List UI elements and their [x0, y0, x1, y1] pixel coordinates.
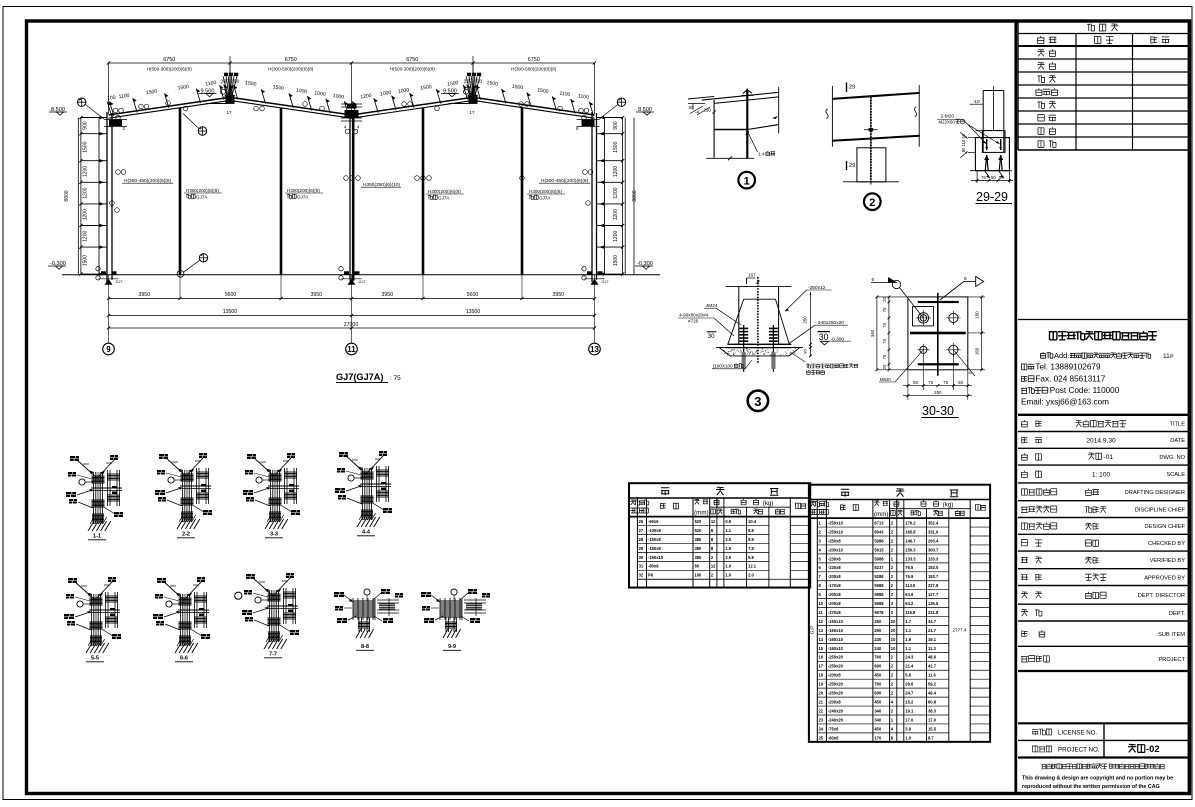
svg-text:-200x8: -200x8	[828, 574, 841, 579]
svg-text:SUB ITEM: SUB ITEM	[1158, 632, 1185, 638]
svg-text:-01: -01	[1104, 454, 1114, 461]
svg-text:3-3: 3-3	[270, 532, 278, 538]
svg-text:3950: 3950	[552, 292, 564, 298]
svg-text:1200: 1200	[83, 209, 89, 220]
svg-text:LICENSE NO.: LICENSE NO.	[1058, 730, 1097, 737]
svg-text:5978: 5978	[874, 610, 884, 615]
svg-text:13: 13	[590, 345, 599, 354]
svg-text:-75x6: -75x6	[828, 726, 839, 731]
svg-text:5-5: 5-5	[91, 656, 99, 662]
svg-text:#726: #726	[688, 319, 699, 324]
svg-text:5915: 5915	[874, 547, 884, 552]
svg-text:50: 50	[689, 105, 694, 110]
svg-text:H300(200)(6)(8): H300(200)(6)(8)	[287, 188, 320, 193]
svg-text:GJ7: GJ7	[602, 280, 609, 284]
svg-text:5600: 5600	[467, 292, 479, 298]
svg-text:DEPT.: DEPT.	[1169, 611, 1186, 617]
svg-text:5.8: 5.8	[748, 555, 754, 560]
svg-text:1500: 1500	[613, 255, 619, 266]
svg-text:: 75: : 75	[390, 375, 401, 382]
svg-text:20: 20	[891, 619, 896, 624]
svg-text:-250x10: -250x10	[828, 520, 844, 525]
svg-text:80: 80	[695, 564, 700, 569]
svg-text:GJ7A: GJ7A	[438, 195, 450, 200]
svg-text:11#: 11#	[1163, 353, 1174, 360]
svg-text:900: 900	[83, 121, 89, 130]
svg-text:GJ7: GJ7	[359, 280, 366, 284]
svg-text:Post Code: 110000: Post Code: 110000	[1050, 386, 1120, 395]
svg-text:23: 23	[819, 717, 824, 722]
svg-text:15: 15	[819, 646, 824, 651]
svg-text:75: 75	[928, 380, 933, 385]
svg-text:-170x8: -170x8	[828, 610, 841, 615]
svg-text:16: 16	[819, 655, 824, 660]
svg-text:-200x8: -200x8	[828, 699, 841, 704]
svg-text:-200x8: -200x8	[828, 592, 841, 597]
svg-text:-250x20: -250x20	[828, 682, 844, 687]
svg-text:H300(200)(6)(8): H300(200)(6)(8)	[186, 188, 219, 193]
svg-text:7.8: 7.8	[748, 546, 754, 551]
svg-text:14: 14	[819, 637, 824, 642]
svg-text:48.6: 48.6	[928, 655, 937, 660]
svg-text:M630: M630	[880, 377, 892, 382]
svg-text:-160x10: -160x10	[828, 619, 844, 624]
svg-text:Email: yxsj66@163.com: Email: yxsj66@163.com	[1021, 398, 1109, 407]
svg-text:10.4: 10.4	[748, 519, 757, 524]
svg-text:-60x6: -60x6	[648, 519, 659, 524]
svg-text:1.0: 1.0	[725, 573, 731, 578]
svg-text:146.7: 146.7	[905, 538, 916, 543]
svg-text:150: 150	[975, 347, 980, 355]
svg-text:34.7: 34.7	[928, 619, 937, 624]
svg-text:5237: 5237	[874, 565, 884, 570]
svg-text:3.9: 3.9	[905, 726, 911, 731]
svg-text:75: 75	[943, 380, 948, 385]
svg-text:GJ7: GJ7	[809, 625, 814, 634]
svg-text:24.3: 24.3	[905, 655, 914, 660]
svg-text:250: 250	[704, 108, 712, 113]
svg-text:27: 27	[639, 528, 644, 533]
svg-text:-250x10: -250x10	[828, 529, 844, 534]
svg-text:1:4: 1:4	[758, 152, 765, 158]
svg-text:1.0: 1.0	[725, 564, 731, 569]
svg-text:75: 75	[882, 338, 887, 343]
svg-text:2: 2	[869, 197, 875, 209]
svg-text:340: 340	[874, 717, 882, 722]
svg-text:31: 31	[639, 564, 644, 569]
svg-text:17.0: 17.0	[905, 717, 914, 722]
svg-text:5988: 5988	[874, 592, 884, 597]
svg-text:6750: 6750	[163, 57, 175, 63]
svg-text:15.5: 15.5	[928, 726, 937, 731]
svg-text:250: 250	[934, 390, 942, 395]
svg-text:2.0: 2.0	[748, 573, 754, 578]
svg-text:PROJECT: PROJECT	[1158, 657, 1185, 663]
svg-text:Tel. 13889102679: Tel. 13889102679	[1035, 363, 1101, 372]
svg-text:60.8: 60.8	[928, 699, 937, 704]
svg-text:DRAFTING DESIGNER: DRAFTING DESIGNER	[1125, 490, 1185, 496]
svg-text:1.1: 1.1	[725, 528, 731, 533]
svg-text:1.1: 1.1	[905, 628, 911, 633]
svg-text:H(300-500)(200)(6)(8): H(300-500)(200)(6)(8)	[511, 67, 557, 72]
svg-text:SCALE: SCALE	[1166, 472, 1185, 478]
svg-text:13: 13	[819, 628, 824, 633]
svg-text:6750: 6750	[528, 57, 540, 63]
svg-text:75: 75	[882, 354, 887, 359]
svg-text:P6: P6	[648, 573, 654, 578]
svg-text:(kg): (kg)	[763, 500, 774, 507]
svg-text:25: 25	[819, 735, 824, 740]
svg-text:PROJECT NO.: PROJECT NO.	[1058, 747, 1100, 754]
svg-text:Add.: Add.	[1054, 351, 1069, 360]
svg-text:450: 450	[874, 699, 882, 704]
svg-text:293.4: 293.4	[928, 538, 939, 543]
svg-text:-150x8: -150x8	[648, 546, 661, 551]
svg-text:153.0: 153.0	[928, 565, 939, 570]
svg-text:76.9: 76.9	[905, 574, 914, 579]
svg-text:1.9: 1.9	[725, 546, 731, 551]
svg-text:-200x8: -200x8	[828, 673, 841, 678]
svg-text:29.6: 29.6	[905, 682, 914, 687]
svg-text:80: 80	[803, 349, 808, 354]
svg-text:22: 22	[819, 708, 824, 713]
svg-text:-250x20: -250x20	[828, 664, 844, 669]
svg-text:45: 45	[968, 371, 972, 375]
svg-text:2-2: 2-2	[182, 532, 190, 538]
svg-text:5988: 5988	[874, 538, 884, 543]
svg-text:13500: 13500	[223, 309, 238, 315]
svg-text:1-1: 1-1	[93, 534, 101, 540]
svg-text:115.9: 115.9	[905, 610, 916, 615]
svg-text:1500: 1500	[83, 141, 89, 152]
svg-text:GJ7: GJ7	[116, 280, 123, 284]
svg-text:-150x8: -150x8	[648, 537, 661, 542]
svg-text:76.5: 76.5	[905, 565, 914, 570]
svg-text:3950: 3950	[138, 292, 150, 298]
svg-text:[100X100: [100X100	[713, 364, 733, 369]
svg-text:4-4: 4-4	[362, 530, 371, 536]
svg-text:30: 30	[708, 333, 716, 340]
svg-text:-160x10: -160x10	[828, 637, 844, 642]
svg-text:1200: 1200	[613, 231, 619, 242]
svg-text:1500: 1500	[83, 255, 89, 266]
svg-text:GJ7A: GJ7A	[196, 194, 208, 199]
svg-text:5988: 5988	[874, 556, 884, 561]
svg-text:5.8: 5.8	[905, 673, 911, 678]
svg-text:32: 32	[639, 573, 644, 578]
svg-text:380: 380	[695, 555, 703, 560]
svg-text:133.3: 133.3	[928, 556, 939, 561]
svg-text:29: 29	[639, 546, 644, 551]
svg-text:-160x10: -160x10	[828, 628, 844, 633]
svg-text:9-9: 9-9	[448, 644, 456, 650]
svg-text:760: 760	[874, 655, 882, 660]
svg-text:1200: 1200	[83, 187, 89, 198]
svg-text:5288: 5288	[874, 574, 884, 579]
svg-text:-160x10: -160x10	[648, 555, 664, 560]
svg-text:20: 20	[882, 296, 887, 301]
svg-text:-60x6: -60x6	[828, 735, 839, 740]
svg-text:150: 150	[975, 311, 980, 319]
svg-text:900: 900	[613, 121, 619, 130]
svg-text:1500: 1500	[613, 141, 619, 152]
svg-text:20: 20	[882, 364, 887, 369]
svg-text:-230x8: -230x8	[828, 565, 841, 570]
svg-text:-02: -02	[1146, 743, 1160, 754]
svg-text:133.3: 133.3	[905, 556, 916, 561]
svg-text:10: 10	[819, 601, 824, 606]
svg-text:450: 450	[874, 726, 882, 731]
svg-text:6643: 6643	[874, 529, 884, 534]
svg-text:CHECKED BY: CHECKED BY	[1148, 541, 1185, 547]
svg-text:450: 450	[874, 673, 882, 678]
svg-text:6750: 6750	[406, 57, 418, 63]
svg-text:-230x8: -230x8	[828, 556, 841, 561]
svg-text:690: 690	[874, 664, 882, 669]
svg-text:80 110 50: 80 110 50	[961, 133, 966, 152]
svg-text:VERIFIED BY: VERIFIED BY	[1150, 558, 1186, 564]
svg-text:1200: 1200	[613, 209, 619, 220]
svg-text:340: 340	[870, 329, 875, 337]
svg-text:0.9: 0.9	[725, 519, 731, 524]
svg-text:3: 3	[754, 394, 761, 409]
svg-text:21.4: 21.4	[905, 664, 914, 669]
svg-text:113.9: 113.9	[905, 583, 916, 588]
svg-text:126.5: 126.5	[928, 601, 939, 606]
svg-text:20: 20	[891, 628, 896, 633]
svg-text:1.1: 1.1	[905, 646, 911, 651]
svg-text:2014.9.30: 2014.9.30	[1086, 438, 1116, 445]
svg-text:167: 167	[748, 273, 756, 278]
svg-text:8.9: 8.9	[748, 537, 754, 542]
svg-text:1200: 1200	[83, 166, 89, 177]
svg-text:-200x10: -200x10	[828, 547, 844, 552]
svg-text:21.7: 21.7	[928, 628, 937, 633]
svg-text:2.5: 2.5	[725, 537, 731, 542]
svg-text:8.7: 8.7	[928, 735, 934, 740]
svg-text:6713: 6713	[874, 520, 884, 525]
svg-text:250: 250	[803, 316, 808, 324]
svg-text:2.9: 2.9	[725, 555, 731, 560]
svg-text:3950: 3950	[381, 292, 393, 298]
svg-text:13500: 13500	[466, 309, 481, 315]
svg-text:-240x20: -240x20	[828, 708, 844, 713]
svg-text:6: 6	[964, 276, 967, 282]
svg-text:1.9: 1.9	[905, 637, 911, 642]
svg-text:4-90x80x20#4: 4-90x80x20#4	[679, 313, 709, 318]
svg-text:-250x20: -250x20	[828, 691, 844, 696]
svg-text:DATE: DATE	[1170, 438, 1185, 444]
svg-text:50: 50	[999, 175, 1004, 180]
svg-text:165.8: 165.8	[905, 529, 916, 534]
svg-text:19.1: 19.1	[928, 637, 937, 642]
svg-text:11: 11	[819, 610, 824, 615]
svg-text:240: 240	[874, 637, 882, 642]
svg-text:5988: 5988	[874, 583, 884, 588]
svg-text:6: 6	[576, 126, 579, 131]
svg-text:3950: 3950	[310, 292, 322, 298]
svg-text:2: 2	[123, 126, 126, 131]
svg-text:30-30: 30-30	[922, 404, 954, 418]
svg-text:352.4: 352.4	[928, 520, 939, 525]
svg-text:-4: -4	[695, 110, 699, 115]
svg-text:42.7: 42.7	[928, 664, 937, 669]
svg-text:50: 50	[991, 175, 996, 180]
svg-text:8.8: 8.8	[748, 528, 754, 533]
svg-text:63.2: 63.2	[905, 601, 914, 606]
svg-text:APPROVED BY: APPROVED BY	[1144, 575, 1185, 581]
svg-text:690: 690	[874, 691, 882, 696]
svg-text:7-7: 7-7	[269, 652, 277, 658]
svg-text:H300(200)(6)(8): H300(200)(6)(8)	[428, 189, 461, 194]
svg-text:38.3: 38.3	[928, 708, 937, 713]
svg-text:GJ7A: GJ7A	[297, 194, 309, 199]
svg-text:760: 760	[874, 682, 882, 687]
svg-text:8800: 8800	[632, 190, 638, 201]
svg-text:8800: 8800	[64, 190, 70, 201]
svg-text:1: 1	[744, 175, 750, 187]
svg-text:GJ7(GJ7A): GJ7(GJ7A)	[336, 372, 384, 382]
svg-text:5600: 5600	[225, 292, 237, 298]
svg-text:H(300-500)(200)(6)(8): H(300-500)(200)(6)(8)	[268, 67, 314, 72]
svg-text:24.7: 24.7	[905, 691, 914, 696]
svg-text:11.6: 11.6	[928, 673, 936, 678]
svg-text:H(500-300)(200)(6)(8): H(500-300)(200)(6)(8)	[147, 67, 193, 72]
svg-text:21: 21	[819, 699, 824, 704]
svg-text:5988: 5988	[874, 601, 884, 606]
svg-text:6-6: 6-6	[180, 656, 188, 662]
svg-text:(mm): (mm)	[694, 510, 708, 517]
svg-text:29-29: 29-29	[976, 190, 1008, 204]
svg-text:10: 10	[891, 646, 896, 651]
svg-text:1200: 1200	[83, 231, 89, 242]
svg-text:12.1: 12.1	[748, 564, 757, 569]
svg-text:H(500-300)(200)(6)(8): H(500-300)(200)(6)(8)	[390, 67, 436, 72]
svg-text:17: 17	[470, 110, 475, 115]
svg-text:11: 11	[347, 345, 356, 354]
svg-text:520: 520	[695, 519, 703, 524]
svg-text:250: 250	[874, 619, 882, 624]
svg-text:10: 10	[891, 637, 896, 642]
svg-text:H300(200)(6)(8): H300(200)(6)(8)	[529, 189, 562, 194]
svg-text:2777.4: 2777.4	[952, 627, 966, 632]
svg-text:-240x20: -240x20	[828, 717, 844, 722]
svg-text:12: 12	[819, 619, 824, 624]
svg-text:19: 19	[819, 682, 824, 687]
svg-text:(kg): (kg)	[943, 501, 954, 508]
svg-text:20: 20	[819, 691, 824, 696]
svg-text:75: 75	[882, 322, 887, 327]
svg-text:100: 100	[695, 573, 703, 578]
svg-text:63.9: 63.9	[905, 592, 914, 597]
svg-text:-250x20: -250x20	[828, 655, 844, 660]
svg-text:150.3: 150.3	[905, 547, 916, 552]
svg-text:(mm): (mm)	[874, 511, 888, 518]
svg-text:1.0: 1.0	[905, 735, 911, 740]
svg-text:17: 17	[819, 664, 824, 669]
svg-text:1200: 1200	[613, 187, 619, 198]
svg-text:11.3: 11.3	[928, 646, 936, 651]
svg-text:176.2: 176.2	[905, 520, 916, 525]
svg-text:19.1: 19.1	[905, 708, 914, 713]
svg-text:9: 9	[106, 345, 111, 354]
svg-text:49.4: 49.4	[928, 691, 937, 696]
svg-text:331.6: 331.6	[928, 529, 939, 534]
svg-text:100: 100	[107, 95, 116, 102]
svg-text:75: 75	[882, 307, 887, 312]
svg-text:380: 380	[695, 537, 703, 542]
svg-text:380: 380	[695, 546, 703, 551]
svg-text:GJ7A: GJ7A	[539, 195, 551, 200]
svg-text:127.7: 127.7	[928, 592, 939, 597]
svg-text:-160x10: -160x10	[828, 646, 844, 651]
svg-text:26: 26	[639, 519, 644, 524]
svg-text:340: 340	[874, 708, 882, 713]
svg-text:50: 50	[958, 380, 963, 385]
svg-text:17: 17	[227, 110, 232, 115]
svg-text:-100x8: -100x8	[648, 528, 661, 533]
svg-text:153.7: 153.7	[928, 574, 939, 579]
svg-text:Fax. 024 85613117: Fax. 024 85613117	[1035, 375, 1105, 384]
svg-text:12: 12	[711, 519, 716, 524]
svg-text:-80x8: -80x8	[648, 564, 659, 569]
svg-text:12: 12	[711, 564, 716, 569]
svg-text:DWG. NO: DWG. NO	[1159, 455, 1185, 461]
svg-text:24: 24	[819, 726, 824, 731]
svg-text:27000: 27000	[344, 322, 359, 328]
svg-text:520: 520	[695, 528, 703, 533]
svg-text:6: 6	[872, 277, 875, 283]
svg-text:170: 170	[874, 735, 882, 740]
svg-text:1200: 1200	[613, 166, 619, 177]
svg-text:29: 29	[849, 163, 855, 169]
svg-text:-200x8: -200x8	[828, 601, 841, 606]
svg-text:30: 30	[639, 555, 644, 560]
svg-text:M22X60: M22X60	[939, 120, 956, 125]
svg-text:17.0: 17.0	[928, 717, 937, 722]
svg-text:28: 28	[639, 537, 644, 542]
svg-text:reproduced without the written: reproduced without the written permissio…	[1022, 784, 1160, 790]
svg-text:15.2: 15.2	[905, 699, 914, 704]
svg-text:250: 250	[874, 628, 882, 633]
svg-text:-170x8: -170x8	[828, 583, 841, 588]
svg-text:-250x8: -250x8	[828, 538, 841, 543]
svg-text:231.8: 231.8	[928, 610, 939, 615]
svg-text:6750: 6750	[285, 57, 297, 63]
svg-text:1.7: 1.7	[905, 619, 911, 624]
svg-text:18: 18	[819, 673, 824, 678]
svg-text:29: 29	[849, 85, 855, 91]
svg-text:DISCIPLINE CHIEF: DISCIPLINE CHIEF	[1135, 507, 1186, 513]
svg-text:8-8: 8-8	[361, 644, 369, 650]
svg-text:75: 75	[981, 175, 986, 180]
svg-text:300.7: 300.7	[928, 547, 939, 552]
svg-text:DESIGN CHIEF: DESIGN CHIEF	[1145, 524, 1186, 530]
svg-text:DEPT. DIRECTOR: DEPT. DIRECTOR	[1138, 593, 1185, 599]
svg-text:50: 50	[913, 380, 918, 385]
svg-text:This drawing & design are copy: This drawing & design are copyright and …	[1022, 776, 1173, 782]
svg-text:1: 100: 1: 100	[1092, 472, 1111, 479]
svg-text:227.8: 227.8	[928, 583, 939, 588]
svg-text:TITLE: TITLE	[1170, 422, 1186, 428]
svg-text:30: 30	[819, 332, 829, 342]
svg-text:240: 240	[874, 646, 882, 651]
svg-text:59.2: 59.2	[928, 682, 937, 687]
